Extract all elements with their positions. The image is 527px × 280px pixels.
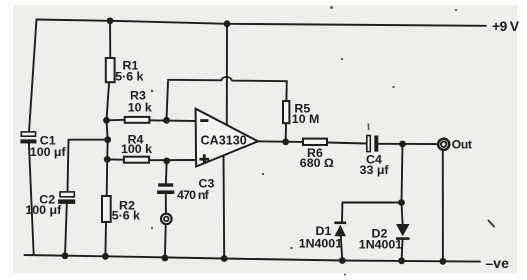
wire terminal to rail (164, 225, 167, 258)
node top rail / V+ (224, 20, 231, 27)
wire op-amp V- to rail (223, 155, 226, 259)
node rail V- (221, 255, 228, 262)
wire feedback riser at inverting node (167, 82, 169, 121)
node output / R5 (282, 138, 289, 145)
svg-text:100 μf: 100 μf (25, 203, 62, 217)
resistor R2 (102, 196, 140, 223)
wire C1 column upper (29, 20, 37, 132)
capacitor C4 (electrolytic) (360, 136, 390, 177)
wire diode top link (342, 202, 401, 204)
node bias R4 (104, 156, 111, 163)
node C4 / diodes (399, 141, 406, 148)
wire R3 left lead (107, 119, 125, 122)
node bias C2 (104, 136, 111, 143)
node rail Out (440, 258, 447, 265)
resistor R4 (121, 132, 152, 162)
wire C4 to Out terminal (378, 143, 438, 145)
wire C1 column lower (29, 143, 34, 255)
svg-text:10 M: 10 M (292, 112, 320, 126)
capacitor C4 polarity tick (367, 124, 369, 131)
op-amp U1 CA3130 (196, 109, 258, 167)
diode D1 1N4001 (299, 223, 347, 251)
wire R4 left lead (107, 158, 124, 160)
svg-text:5·6 k: 5·6 k (112, 209, 140, 223)
resistor R1 (106, 58, 144, 84)
wire bottom supply rail -ve (25, 255, 481, 262)
wire C3 bottom to terminal (165, 194, 167, 213)
wire C4 node down to diode node (402, 144, 403, 203)
wire op-amp V+ supply (226, 24, 228, 125)
wire top supply rail +9V (37, 20, 487, 26)
wire R2 bottom to rail (104, 222, 107, 256)
node top rail / R1 (107, 17, 114, 24)
wire D2 bottom lead (401, 240, 404, 261)
node rail R2 (102, 253, 109, 260)
capacitor C1 (electrolytic) (20, 132, 66, 159)
svg-text:1N4001: 1N4001 (359, 238, 403, 252)
resistor R3 (125, 89, 152, 123)
svg-text:CA3130: CA3130 (201, 133, 247, 147)
wire R3 right lead to inverting input (149, 119, 195, 122)
wire D2 top lead (402, 203, 403, 225)
svg-text:1N4001: 1N4001 (299, 237, 343, 251)
svg-text:680 Ω: 680 Ω (300, 156, 334, 170)
node rail C2 (62, 252, 69, 259)
wire main bias column R1 top (109, 21, 111, 58)
wire non-inverting node down to C3 (165, 161, 168, 183)
node rail D2 (398, 257, 405, 264)
node diode link (398, 199, 405, 206)
node bias R3 (103, 117, 110, 124)
node non-inverting input (163, 158, 170, 165)
stray pen tick top right (489, 221, 495, 227)
resistor R6 (300, 139, 334, 170)
wire R6 to C4 (327, 143, 367, 144)
wire feedback top with hop over supply wire (168, 77, 287, 101)
wire C2 bottom to rail (65, 204, 67, 256)
svg-text:33 μf: 33 μf (360, 163, 390, 177)
capacitor C2 (electrolytic) (25, 192, 75, 217)
wire op-amp output to R6 (258, 140, 303, 143)
terminal input socket below C3 (161, 214, 172, 225)
svg-text:–ve: –ve (486, 255, 510, 271)
svg-text:470 nf: 470 nf (177, 188, 210, 202)
wire bias node to C2 (68, 140, 108, 192)
wire D1 top lead (341, 203, 343, 223)
wire D1 bottom lead (341, 236, 343, 260)
capacitor C3 (157, 177, 214, 203)
svg-text:+9 V: +9 V (492, 18, 520, 34)
resistor R5 (283, 101, 319, 126)
node rail D1 (339, 257, 346, 264)
paper speck marks (151, 6, 457, 275)
svg-text:Out: Out (452, 138, 472, 152)
wire R4 right lead to non-inverting input (149, 159, 195, 161)
wire Out terminal to rail (442, 150, 444, 261)
terminal Out (438, 138, 472, 152)
svg-text:5·6 k: 5·6 k (115, 70, 143, 84)
svg-text:100 μf: 100 μf (30, 145, 67, 159)
svg-text:10 k: 10 k (128, 100, 152, 114)
node inverting input (163, 117, 170, 124)
wire R5 bottom to output node (285, 123, 287, 142)
wire main bias column R1 bottom to R3 node (107, 82, 110, 196)
node rail C3 terminal (162, 255, 169, 262)
diode D2 1N4001 (359, 224, 410, 252)
svg-text:100 k: 100 k (121, 142, 152, 156)
